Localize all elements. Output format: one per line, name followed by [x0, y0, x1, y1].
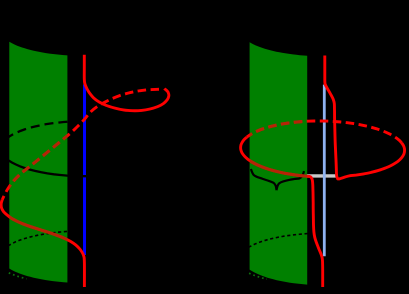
right red curve: top vertical, jog, right arc (solid): [325, 56, 405, 179]
right pale blue line: [323, 85, 326, 257]
left blue line: [83, 85, 86, 256]
right cylinder bottom-left rim dots (green): [249, 273, 267, 279]
left red curve: top vertical and front loop (solid): [84, 55, 169, 111]
right red circle back (dashed): [247, 121, 402, 143]
left cylinder (green): [9, 42, 67, 283]
gray bar: [307, 174, 338, 177]
left red curve: front wrap and bottom vertical (solid): [1, 200, 84, 288]
left meridian circle front (solid black): [1, 147, 102, 176]
right cylinder bottom back rim (dotted): [241, 233, 339, 256]
right red curve: left arc, bottom vertical with jog (solid): [241, 137, 323, 287]
right red over-green tint: [241, 56, 405, 288]
brace: [251, 169, 304, 190]
right cylinder (green): [250, 42, 308, 284]
left red curve: hidden helix part (dashed): [2, 89, 163, 199]
left red curve over-green tint: [1, 55, 169, 287]
left meridian circle back (dashed black): [1, 121, 97, 149]
left cylinder bottom-left rim dots (green): [9, 273, 27, 279]
left cylinder bottom back rim (dotted): [1, 231, 99, 255]
